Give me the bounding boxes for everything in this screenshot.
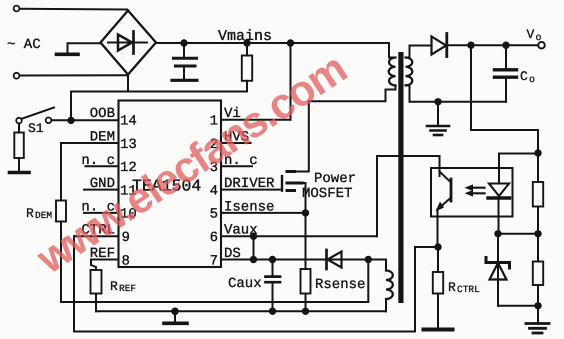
inductor T1 aux	[386, 271, 393, 300]
svg-text:OOB: OOB	[90, 106, 115, 122]
wire DS pin 7	[221, 259, 386, 261]
wire aux winding bottom	[385, 299, 387, 311]
opto light arrows	[465, 184, 485, 196]
wire bridge left stub	[68, 43, 101, 53]
transformer core	[398, 52, 403, 303]
node Rsense bottom	[302, 308, 309, 315]
svg-text:V: V	[527, 27, 535, 42]
label Vo	[527, 27, 542, 44]
svg-text:Power: Power	[314, 171, 356, 187]
wire REF pin 8	[91, 259, 119, 261]
terminal Vo	[538, 42, 545, 49]
resistor below S1	[14, 124, 23, 172]
resistor R3 (divider bottom)	[533, 234, 543, 306]
node right ground	[534, 302, 541, 309]
svg-text:6: 6	[210, 230, 218, 246]
label RCTRL	[448, 280, 480, 295]
svg-text:4: 4	[210, 183, 218, 199]
wire GND pin 11 stub	[84, 189, 119, 191]
wire Vi riser	[290, 43, 292, 120]
wire Vaux pin 6	[221, 235, 377, 237]
wire bridge-return rail	[71, 91, 247, 93]
label Co	[520, 69, 535, 86]
pin numbers left	[120, 114, 137, 270]
svg-text:C: C	[520, 69, 528, 84]
terminal AC bottom	[14, 73, 20, 79]
node DS link	[250, 256, 257, 263]
resistor Rsense	[301, 213, 311, 311]
svg-text:o: o	[529, 75, 535, 86]
wire CTRL drop	[73, 236, 75, 331]
pin labels left	[81, 106, 115, 262]
watermark	[28, 11, 405, 284]
resistor R1 (Vmains)	[242, 43, 252, 92]
svg-text:S1: S1	[28, 121, 44, 136]
wire OOB pin 14	[52, 119, 119, 121]
wire opto collector	[377, 156, 440, 236]
svg-text:Rsense: Rsense	[315, 277, 365, 293]
wire RDEM branch top	[60, 143, 62, 201]
node R1 top	[243, 39, 250, 46]
svg-text:CTRL: CTRL	[457, 284, 480, 295]
svg-text:o: o	[536, 33, 542, 44]
node zener link right	[534, 230, 541, 237]
node Vo feedback	[467, 42, 474, 49]
svg-text:7: 7	[210, 253, 218, 269]
optocoupler U2 box	[431, 168, 513, 217]
resistor R2 (divider top)	[533, 153, 543, 234]
label RREF	[110, 279, 136, 294]
ground S1 bar	[10, 171, 30, 175]
wire Vo sense drop	[471, 45, 538, 153]
node Vi branch	[287, 39, 294, 46]
label Power MOSFET	[302, 171, 356, 202]
inductor T1 primary	[389, 58, 396, 86]
node aux winding top	[365, 256, 372, 263]
svg-text:14: 14	[120, 114, 137, 130]
wire CTRL pin 9	[74, 235, 119, 237]
phototransistor inside opto	[436, 172, 452, 248]
node opto emitter	[434, 243, 441, 250]
wire AC bottom line	[20, 74, 127, 76]
ground bar RCTRL	[424, 328, 453, 332]
node Isense-source	[302, 209, 309, 216]
wire rail A riser	[367, 260, 369, 303]
node Vaux tap	[250, 233, 257, 240]
svg-text:R: R	[448, 280, 456, 295]
wire rail A (DEM net)	[61, 301, 368, 303]
svg-text:~ AC: ~ AC	[7, 37, 41, 53]
wire Vaux-DS link	[253, 236, 255, 259]
svg-text:13: 13	[120, 137, 137, 153]
wire Vmains to primary	[291, 43, 396, 58]
diode D3 (aux)	[327, 250, 342, 269]
wire Vi pin 1	[221, 119, 291, 121]
node Caux bottom	[269, 308, 276, 315]
svg-text:R: R	[26, 206, 34, 221]
wire secondary bottom	[406, 85, 507, 101]
node Co top	[502, 42, 509, 49]
wire HVS stub	[221, 142, 251, 144]
wire OOB drop	[70, 92, 72, 121]
wire DEM pin 13	[61, 142, 119, 144]
wire Isense pin 5	[221, 212, 306, 214]
wire aux winding top	[368, 260, 386, 271]
wire AC top line	[20, 8, 128, 11]
svg-text:Caux: Caux	[228, 276, 262, 292]
svg-text:5: 5	[210, 207, 218, 223]
wire nc pin 3 stub	[221, 165, 252, 167]
wire Vo rail	[447, 44, 539, 46]
svg-text:DEM: DEM	[35, 210, 52, 221]
bridge rectifier	[101, 11, 157, 75]
terminal AC top	[14, 6, 20, 12]
diode D2 output	[432, 34, 447, 57]
wire Vmains rail	[156, 42, 291, 44]
node secondary ground	[434, 98, 441, 105]
node C1 top	[180, 39, 187, 46]
label RDEM	[26, 206, 52, 221]
ground earth right	[526, 306, 549, 333]
chassis bar	[57, 52, 79, 56]
resistor RDEM	[56, 201, 66, 303]
inductor T1 secondary	[406, 58, 413, 86]
capacitor Caux	[266, 260, 281, 312]
svg-text:MOSFET: MOSFET	[302, 186, 352, 202]
pin labels right	[224, 106, 275, 262]
wire nc pin 10 stub	[84, 212, 119, 214]
wire zener to ground rail	[498, 305, 538, 307]
wire secondary top	[406, 46, 430, 58]
transistor Q1 power MOSFET	[282, 101, 309, 213]
wire rail C (CTRL net)	[74, 247, 438, 332]
svg-text:REF: REF	[119, 283, 136, 294]
wire bridge bottom drop	[127, 75, 129, 92]
svg-text:8: 8	[122, 253, 130, 269]
ground earth secondary	[427, 102, 449, 135]
wire DRIVER pin 4 gate	[221, 189, 281, 191]
node zener link left	[494, 230, 501, 237]
node divider top	[534, 149, 541, 156]
resistor RCTRL	[433, 247, 443, 328]
IC U1 TEA1504	[119, 101, 222, 268]
ground bar mid	[164, 311, 187, 323]
wire primary bottom	[309, 86, 396, 102]
wire nc pin 12 stub	[86, 165, 119, 167]
wire rail B (ground net)	[96, 310, 386, 312]
capacitor Co	[495, 45, 517, 102]
svg-text:R: R	[110, 279, 118, 294]
node OOB junction	[67, 117, 74, 124]
node ground tap	[171, 308, 179, 316]
wire LED feed	[499, 154, 538, 169]
capacitor C1 (mains filter)	[172, 43, 197, 80]
pin numbers right	[210, 114, 218, 270]
resistor RREF	[91, 270, 102, 311]
wire zener link	[498, 233, 538, 235]
LED inside opto	[488, 168, 510, 234]
diode DZ zener	[486, 234, 510, 306]
wire REF drop	[91, 260, 96, 271]
node Caux top	[269, 256, 276, 263]
switch S1	[16, 108, 54, 124]
